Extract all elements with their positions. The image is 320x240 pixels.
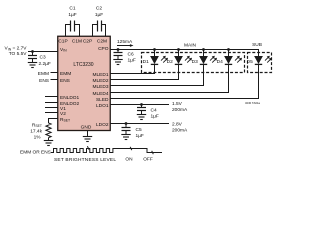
svg-text:D4: D4 [217, 59, 223, 65]
node CPO/C6 junction [117, 48, 120, 51]
svg-text:C1M: C1M [72, 39, 82, 45]
wire MLED2 to D2 cathode [110, 64, 179, 79]
svg-text:MAIN: MAIN [184, 43, 197, 49]
svg-text:D2: D2 [167, 59, 173, 65]
svg-text:C1: C1 [69, 6, 75, 12]
node VIN/C3 junction [31, 50, 34, 53]
svg-text:C2P: C2P [83, 39, 92, 45]
svg-text:EMM OR ENS: EMM OR ENS [20, 150, 51, 156]
waveform break tick 1 [87, 146, 89, 149]
capacitor C3 [28, 52, 51, 67]
capacitor C2 [93, 6, 106, 37]
svg-text:1µF: 1µF [95, 12, 103, 18]
node LDO2/C5 junction [125, 122, 128, 125]
waveform EMM/ENS brightness pulses [51, 146, 162, 154]
LED D3 [192, 48, 217, 65]
svg-text:C5: C5 [136, 127, 142, 133]
svg-text:D1: D1 [143, 59, 149, 65]
svg-text:1.5V: 1.5V [172, 101, 183, 107]
LED D4 [217, 48, 242, 65]
capacitor C4 [137, 105, 159, 120]
svg-text:RSET: RSET [32, 122, 42, 128]
svg-text:2.2µF: 2.2µF [39, 61, 51, 67]
waveform break tick 3 [152, 151, 154, 154]
svg-text:125mA: 125mA [117, 39, 133, 45]
svg-text:1µF: 1µF [136, 133, 144, 139]
svg-text:LTC3230: LTC3230 [73, 62, 93, 68]
wire V2 stub [45, 112, 58, 114]
svg-text:MLED3: MLED3 [93, 84, 109, 90]
ground for C4 [137, 115, 146, 120]
svg-text:TO 5.5V: TO 5.5V [9, 51, 28, 57]
svg-text:GND: GND [81, 124, 92, 130]
svg-text:17.4k: 17.4k [30, 129, 42, 135]
svg-text:200mA: 200mA [172, 107, 188, 113]
svg-text:D3: D3 [192, 59, 198, 65]
svg-text:C6: C6 [128, 52, 134, 58]
LED D1 [143, 48, 168, 65]
ground for C6 [113, 60, 122, 65]
SUB display dashed box [248, 53, 272, 73]
svg-text:RSET: RSET [60, 117, 70, 123]
wire ENS [51, 79, 59, 81]
wire LDO1 output [110, 104, 169, 106]
LED D5 [247, 50, 272, 65]
svg-text:C3: C3 [40, 55, 46, 61]
svg-text:SUB: SUB [252, 42, 262, 48]
svg-text:VIN: VIN [60, 47, 67, 53]
svg-text:3230 TA01a: 3230 TA01a [245, 101, 260, 105]
svg-text:2.8V: 2.8V [172, 122, 183, 128]
wire MLED4 to D4 cathode [110, 64, 229, 92]
svg-text:MLED1: MLED1 [93, 72, 109, 78]
svg-text:MLED2: MLED2 [93, 78, 109, 84]
svg-text:EMM: EMM [60, 71, 71, 77]
svg-text:VIN = 2.7V: VIN = 2.7V [5, 46, 28, 52]
svg-text:C2: C2 [96, 6, 102, 12]
waveform break tick 2 [130, 147, 132, 150]
wire EMM [51, 72, 59, 74]
svg-text:CPO: CPO [98, 46, 109, 52]
wire ENLDO1 stub [45, 96, 58, 98]
svg-text:V2: V2 [60, 111, 66, 117]
wire MLED3 to D3 cathode [110, 64, 204, 85]
wire V1 stub [45, 107, 58, 109]
wire VIN [28, 51, 58, 53]
svg-text:OFF: OFF [143, 156, 153, 162]
svg-text:1µF: 1µF [151, 113, 159, 119]
MAIN display dashed box [142, 53, 245, 73]
svg-text:200mA: 200mA [172, 128, 188, 134]
svg-text:1µF: 1µF [128, 58, 136, 64]
svg-text:C2M: C2M [97, 39, 107, 45]
LED D2 [167, 48, 192, 65]
svg-text:LDO2: LDO2 [96, 122, 109, 128]
capacitor C6 [114, 50, 136, 64]
svg-text:C1P: C1P [58, 39, 67, 45]
wire MLED1 to D1 cathode [110, 64, 155, 73]
svg-text:SLED: SLED [96, 97, 109, 103]
svg-text:ON: ON [125, 156, 133, 162]
wire CPO rail [110, 50, 259, 57]
wire ENLDO2 stub [45, 102, 58, 104]
svg-text:ENLDO1: ENLDO1 [60, 95, 80, 101]
svg-text:MLED4: MLED4 [93, 91, 109, 97]
svg-text:EMM: EMM [38, 71, 49, 77]
wire LDO2 output [110, 123, 169, 125]
ground for GND pin [83, 137, 92, 142]
svg-text:D5: D5 [247, 59, 253, 65]
capacitor C1 [66, 6, 80, 37]
wire SLED to D5 cathode [110, 64, 259, 98]
svg-text:SET BRIGHTNESS LEVEL: SET BRIGHTNESS LEVEL [54, 157, 116, 163]
IC U1 LTC3230 body [58, 36, 111, 130]
resistor RSET 17.4k 1% [30, 122, 51, 140]
svg-text:ENS: ENS [39, 78, 49, 84]
svg-text:LDO1: LDO1 [96, 103, 109, 109]
capacitor C5 [122, 124, 144, 139]
ground for C3 [28, 63, 37, 68]
svg-text:ENS: ENS [60, 78, 70, 84]
node LDO1/C4 junction [140, 103, 143, 106]
wire RSET [49, 119, 59, 124]
svg-text:1µF: 1µF [68, 12, 76, 18]
125mA arrow [117, 45, 133, 47]
wire GND pin [87, 131, 89, 137]
svg-text:1%: 1% [34, 135, 42, 141]
ground for C5 [121, 135, 130, 140]
svg-text:C4: C4 [151, 107, 157, 113]
ground for RSET [44, 141, 53, 146]
